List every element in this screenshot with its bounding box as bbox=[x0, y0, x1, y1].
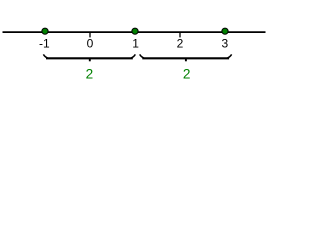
svg-text:0: 0 bbox=[87, 37, 94, 51]
svg-text:2: 2 bbox=[86, 66, 94, 81]
svg-text:2: 2 bbox=[177, 37, 184, 51]
svg-text:2: 2 bbox=[183, 66, 191, 81]
svg-text:-1: -1 bbox=[39, 37, 50, 51]
svg-text:1: 1 bbox=[132, 37, 139, 51]
svg-text:3: 3 bbox=[221, 37, 228, 51]
